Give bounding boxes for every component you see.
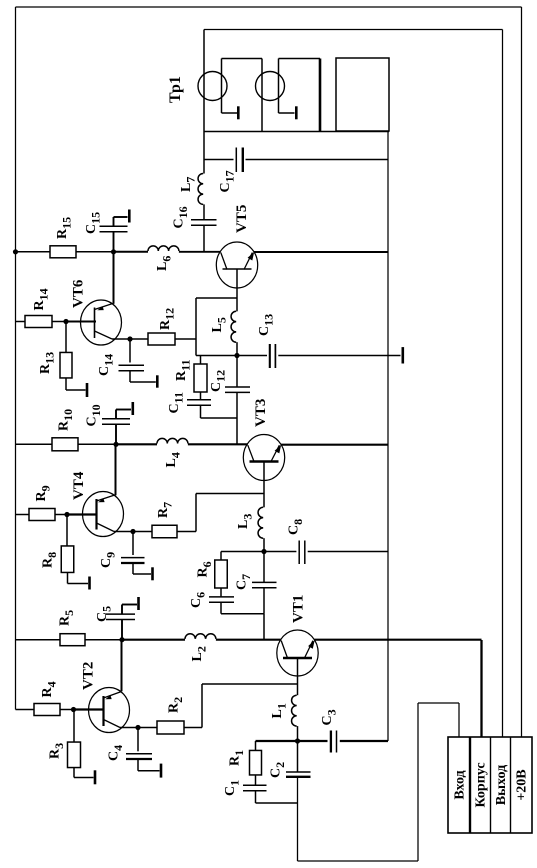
svg-text:VT3: VT3 <box>253 399 269 427</box>
svg-text:Тр1: Тр1 <box>167 76 184 103</box>
svg-text:VT2: VT2 <box>81 662 97 690</box>
svg-text:Корпус: Корпус <box>474 762 489 807</box>
svg-text:VT1: VT1 <box>291 595 307 623</box>
svg-text:VT5: VT5 <box>234 205 250 233</box>
svg-text:Выход: Выход <box>494 765 509 805</box>
svg-text:Вход: Вход <box>453 770 468 799</box>
svg-text:VT6: VT6 <box>71 279 87 308</box>
svg-text:VT4: VT4 <box>71 471 87 500</box>
svg-text:+20В: +20В <box>515 769 530 800</box>
